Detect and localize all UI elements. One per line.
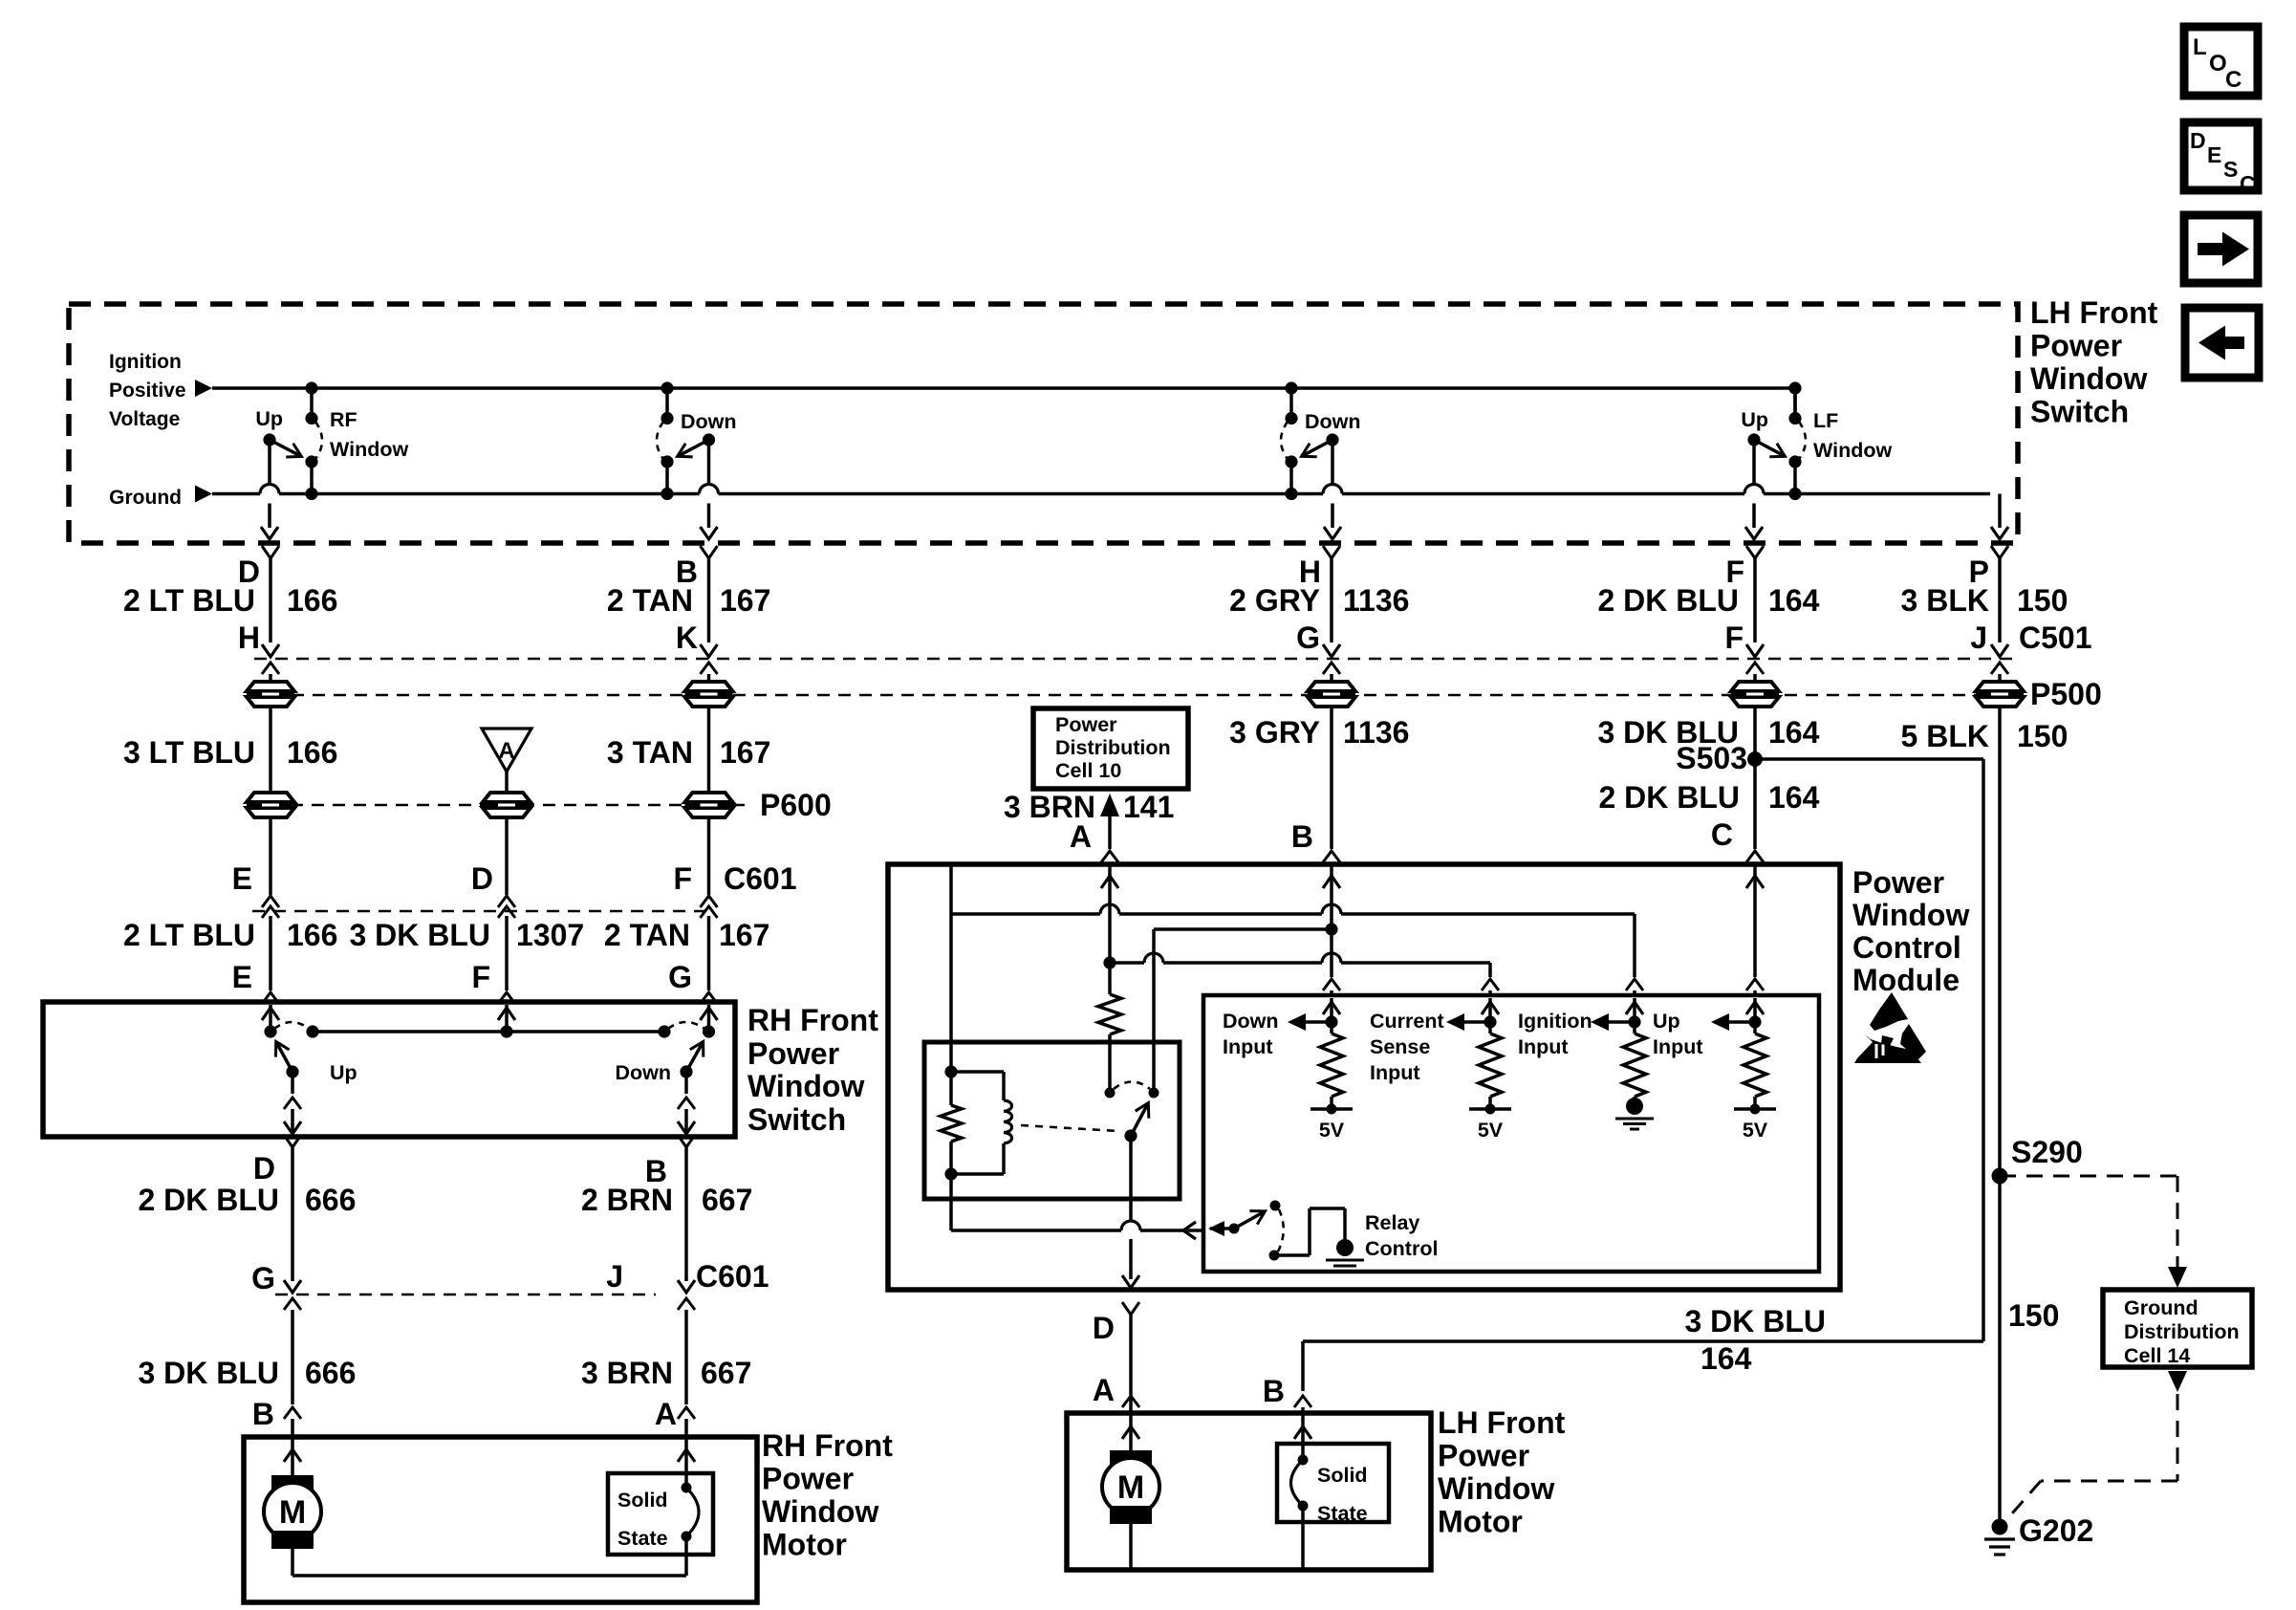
svg-text:Control: Control: [1852, 930, 1961, 965]
connector P600 (dashed line): [249, 804, 753, 806]
wire 3 DK BLU 1307 (P600 to C601): [505, 817, 509, 895]
svg-text:167: 167: [720, 583, 770, 618]
svg-text:150: 150: [2017, 719, 2068, 753]
entry chevron module pin C: [1746, 851, 1764, 862]
svg-text:Up: Up: [1653, 1010, 1680, 1033]
svg-text:Module: Module: [1852, 963, 1960, 997]
label RH Front Power Window Switch: [747, 1003, 878, 1137]
solid state switch contacts (LH motor): [1291, 1413, 1312, 1568]
wire pin D module to LH motor A: [1122, 1302, 1139, 1413]
svg-text:F: F: [673, 861, 692, 896]
solid state switch box (RH motor): [608, 1473, 713, 1555]
wires LH switch to C501 with entry chevrons: [262, 546, 2008, 642]
connector pass-through P500 at x=741.5: [685, 682, 733, 691]
svg-text:5V: 5V: [1478, 1119, 1504, 1142]
svg-text:Distribution: Distribution: [1055, 736, 1171, 759]
svg-text:D: D: [2190, 128, 2206, 153]
wire A triangle to P600: [505, 772, 509, 793]
wire label 2 DK BLU 164: [1597, 583, 1819, 618]
wire label 5 BLK 150: [1901, 719, 2069, 753]
svg-text:167: 167: [720, 735, 770, 770]
svg-text:LH Front: LH Front: [2030, 295, 2158, 330]
svg-text:A: A: [655, 1397, 677, 1431]
svg-text:166: 166: [287, 583, 337, 618]
wire label 2 DK BLU 164 (S503 to module C): [1598, 780, 1819, 815]
label LH Front Power Window Switch: [2030, 295, 2158, 429]
wire B exit RH switch: [678, 1135, 695, 1281]
wire label 3 DK BLU 164: [1597, 715, 1819, 750]
ground input arrow: [195, 486, 212, 503]
svg-text:Window: Window: [330, 438, 408, 461]
RH switch internal bus and contacts: [262, 1005, 718, 1038]
svg-text:LH Front: LH Front: [1438, 1405, 1566, 1440]
svg-text:J: J: [606, 1259, 623, 1294]
svg-text:1307: 1307: [516, 918, 584, 952]
svg-text:Ground: Ground: [2124, 1296, 2199, 1319]
entry chevrons RH switch: [262, 992, 718, 1004]
svg-text:O: O: [2209, 51, 2227, 76]
LH Front Power Window Switch box (dashed): [69, 304, 2018, 543]
svg-text:A: A: [1070, 819, 1092, 854]
connector pass-through P600 col1: [247, 793, 294, 802]
wire 3 DK BLU 164 (S503 to LH motor B): [1294, 1341, 1983, 1413]
ground G202: [1984, 1519, 2015, 1556]
svg-text:3 DK BLU: 3 DK BLU: [349, 918, 490, 952]
svg-text:164: 164: [1768, 715, 1820, 750]
relay coil inductor branch: [951, 1072, 1012, 1174]
svg-text:Power: Power: [1852, 865, 1944, 900]
svg-text:666: 666: [305, 1356, 356, 1390]
svg-text:LF: LF: [1813, 409, 1838, 432]
svg-text:Window: Window: [1438, 1471, 1554, 1506]
svg-text:J: J: [1970, 620, 1987, 655]
switch RF window Up (in LH switch): [261, 381, 322, 539]
svg-text:Window: Window: [2030, 361, 2147, 396]
label RH Front Power Window Motor: [762, 1428, 893, 1562]
svg-text:667: 667: [701, 1356, 751, 1390]
resistor on A line (module internal): [1098, 963, 1121, 1042]
svg-text:G: G: [251, 1261, 275, 1295]
Ground Distribution Cell 14 box: [2103, 1290, 2252, 1367]
svg-text:Power: Power: [747, 1036, 839, 1071]
dashed link S290 to Ground Distribution: [2000, 1176, 2187, 1288]
svg-text:2 LT BLU: 2 LT BLU: [123, 918, 255, 952]
svg-text:5V: 5V: [1319, 1119, 1345, 1142]
wire label 3 DK BLU 666: [138, 1356, 356, 1390]
switch RF window Down (in LH switch): [657, 381, 718, 539]
svg-text:Voltage: Voltage: [109, 408, 180, 430]
connector P500 (dashed line): [271, 694, 1996, 696]
svg-text:Down: Down: [1305, 410, 1361, 433]
wire pin A to current sense (module internal): [1101, 866, 1499, 995]
relay switch (module internal): [1021, 1042, 1159, 1142]
label Down Input: [1223, 1010, 1279, 1058]
connector pass-through P500 at x=283: [247, 682, 294, 691]
wire label 2 LT BLU 166: [123, 583, 337, 618]
svg-text:E: E: [232, 960, 252, 994]
svg-text:C601: C601: [724, 861, 797, 896]
relay box (module internal): [924, 1042, 1180, 1199]
LH Front Power Window Motor box: [1067, 1413, 1431, 1570]
svg-text:164: 164: [1768, 780, 1820, 815]
label LH Front Power Window Motor: [1438, 1405, 1566, 1539]
svg-text:G: G: [668, 960, 692, 994]
svg-text:Input: Input: [1653, 1035, 1703, 1058]
connector pass-through P600 col2: [685, 793, 733, 802]
svg-text:S290: S290: [2011, 1135, 2083, 1169]
svg-text:Switch: Switch: [2030, 395, 2129, 429]
relay control switch with ground: [1208, 1201, 1364, 1273]
wire 3 LT BLU (P600 to C601): [269, 817, 272, 895]
svg-text:Cell 14: Cell 14: [2124, 1344, 2190, 1367]
svg-text:Solid: Solid: [617, 1489, 668, 1512]
motor M (RH front power window motor): [264, 1437, 686, 1576]
wire 3 LT BLU (P500 to P600): [269, 707, 272, 793]
svg-text:Positive: Positive: [109, 380, 186, 402]
label Ignition Positive Voltage: [109, 351, 186, 430]
svg-text:Control: Control: [1365, 1237, 1438, 1260]
label 3 BRN 141: [1004, 790, 1174, 824]
svg-text:Down: Down: [1223, 1010, 1279, 1033]
relay coil resistor branch: [941, 1042, 962, 1181]
svg-text:P600: P600: [760, 788, 832, 822]
Power Window Control Module box: [888, 864, 1840, 1290]
wire ground bus drop to P exit: [1998, 494, 2002, 529]
svg-text:164: 164: [1700, 1341, 1752, 1376]
wire label 2 TAN 167: [607, 583, 770, 618]
svg-text:State: State: [617, 1527, 668, 1550]
svg-text:B: B: [1291, 819, 1313, 854]
svg-text:2 BRN: 2 BRN: [581, 1183, 673, 1217]
connector pass-through P600 colA: [483, 793, 531, 802]
RH switch Down pole and arm: [678, 1041, 704, 1134]
svg-text:Ignition: Ignition: [1518, 1010, 1592, 1033]
RH Front Power Window Motor box: [244, 1437, 757, 1602]
svg-text:150: 150: [2017, 583, 2068, 618]
svg-text:Window: Window: [762, 1494, 878, 1529]
module inner box: [1203, 995, 1819, 1272]
up input resistor (to 5V): [1711, 998, 1776, 1142]
svg-text:Down: Down: [681, 410, 737, 433]
svg-text:Up: Up: [330, 1061, 357, 1084]
wire label 3 DK BLU 1307: [349, 918, 584, 952]
svg-text:Sense: Sense: [1370, 1035, 1430, 1058]
svg-text:2 DK BLU: 2 DK BLU: [1597, 583, 1739, 618]
connector C501 (dashed line): [254, 658, 2015, 660]
svg-text:P500: P500: [2030, 677, 2102, 711]
svg-text:Ground: Ground: [109, 487, 182, 509]
dashed link Ground Distribution to G202: [2005, 1371, 2187, 1521]
RH Front Power Window Switch box: [43, 1002, 735, 1137]
svg-text:666: 666: [305, 1183, 356, 1217]
legend box arrow-left: [2185, 308, 2259, 378]
svg-text:S503: S503: [1676, 741, 1747, 775]
wire 5 BLK (P500 down right side): [1998, 707, 2002, 1176]
ESD sensitivity symbol: [1854, 992, 1926, 1063]
svg-text:G: G: [1296, 620, 1320, 655]
svg-text:K: K: [676, 620, 698, 655]
svg-text:3 TAN: 3 TAN: [607, 735, 693, 770]
switch LF window Down (in LH switch): [1281, 381, 1341, 539]
label RF Window: [330, 408, 408, 461]
svg-text:Input: Input: [1518, 1035, 1569, 1058]
svg-text:Cell 10: Cell 10: [1055, 759, 1121, 782]
wire pin B to down input and relay contact: [1154, 866, 1340, 1042]
svg-text:3 DK BLU: 3 DK BLU: [1684, 1304, 1826, 1338]
svg-text:Power: Power: [2030, 329, 2122, 363]
svg-text:Input: Input: [1223, 1035, 1273, 1058]
label LF Window: [1813, 409, 1892, 462]
svg-text:Motor: Motor: [1438, 1505, 1523, 1539]
svg-text:5 BLK: 5 BLK: [1901, 719, 1989, 753]
wires crossing C601 lower: [284, 1280, 695, 1404]
current sense input resistor (to 5V): [1446, 998, 1511, 1142]
svg-text:166: 166: [287, 918, 337, 952]
svg-text:D: D: [253, 1151, 275, 1186]
splice S503 (junction dot): [1747, 751, 1763, 767]
svg-text:Solid: Solid: [1317, 1464, 1368, 1487]
svg-text:A: A: [498, 738, 514, 764]
svg-text:1136: 1136: [1343, 583, 1409, 618]
svg-text:F: F: [1724, 620, 1744, 655]
wires crossing C601 upper (double chevrons): [262, 896, 718, 990]
svg-text:166: 166: [287, 735, 337, 770]
down input resistor (to 5V): [1288, 998, 1353, 1142]
connector C601 upper (dashed line): [252, 910, 712, 912]
svg-text:C: C: [1711, 817, 1733, 852]
wire label 2 GRY 1136: [1229, 583, 1409, 618]
svg-text:141: 141: [1123, 790, 1174, 824]
svg-text:Up: Up: [1741, 408, 1768, 431]
wire ground bus with hops: [212, 485, 1990, 494]
wire ignition bus drop to LF contact: [1793, 388, 1797, 418]
svg-text:D: D: [471, 861, 493, 896]
svg-text:Power: Power: [762, 1462, 854, 1496]
svg-text:5V: 5V: [1743, 1119, 1768, 1142]
wire 3 TAN (P500 to P600): [707, 707, 711, 793]
svg-text:164: 164: [1768, 583, 1820, 618]
svg-text:Down: Down: [615, 1061, 671, 1084]
svg-text:RH Front: RH Front: [747, 1003, 878, 1037]
svg-text:E: E: [232, 861, 252, 896]
wire 3 DK BLU (P500 to S503): [1753, 707, 1757, 849]
entry chevrons RH motor: [284, 1407, 695, 1437]
wire label 2 BRN 667: [581, 1183, 752, 1217]
label Ignition Input: [1518, 1010, 1592, 1058]
svg-text:Distribution: Distribution: [2124, 1320, 2240, 1343]
wire relay pole to pin D: [1122, 1136, 1139, 1288]
wire label 3 BRN 667: [581, 1356, 751, 1390]
solid state switch contacts (RH motor): [678, 1437, 699, 1542]
ignition positive voltage input arrow: [195, 380, 212, 397]
svg-text:167: 167: [719, 918, 769, 952]
svg-text:C: C: [2225, 67, 2242, 93]
svg-text:Current: Current: [1370, 1010, 1444, 1033]
wire label 3 GRY 1136: [1229, 715, 1409, 750]
svg-text:E: E: [2207, 142, 2221, 167]
label Relay Control: [1365, 1211, 1438, 1260]
wire D exit RH switch: [284, 1135, 301, 1281]
label Current Sense Input: [1370, 1010, 1444, 1084]
svg-text:B: B: [252, 1397, 274, 1431]
svg-text:F: F: [471, 960, 490, 994]
connector pass-through P500 at x=1836: [1731, 682, 1779, 691]
wire 3 TAN (P600 to C601): [707, 817, 711, 895]
wire 3 BRN 141 to Power Distribution: [1100, 794, 1119, 849]
svg-text:Switch: Switch: [747, 1102, 846, 1137]
wire ignition feed (module internal): [951, 866, 1643, 1042]
svg-text:Power: Power: [1055, 713, 1117, 736]
motor M (LH front power window motor): [1102, 1413, 1159, 1568]
svg-text:C: C: [2240, 171, 2256, 196]
ignition input resistor (to ground): [1591, 998, 1654, 1129]
svg-text:M: M: [279, 1494, 306, 1531]
wire relay control to coil: [951, 1174, 1203, 1230]
svg-text:C501: C501: [2019, 620, 2092, 655]
svg-text:150: 150: [2008, 1298, 2059, 1333]
entry chevron module pin A: [1101, 851, 1118, 862]
wire 3 GRY (P500 to module B): [1330, 707, 1333, 849]
splice S290 (junction dot): [1992, 1168, 2008, 1185]
connector C601 lower (dashed line): [275, 1294, 656, 1295]
svg-text:1136: 1136: [1343, 715, 1409, 750]
svg-text:H: H: [238, 620, 260, 655]
svg-text:3 GRY: 3 GRY: [1229, 715, 1320, 750]
svg-text:3 BLK: 3 BLK: [1901, 583, 1989, 618]
svg-text:A: A: [1093, 1373, 1115, 1407]
wire label 3 TAN 167: [607, 735, 770, 770]
wire label 2 TAN 167 (to RH switch): [604, 918, 769, 952]
svg-text:2 LT BLU: 2 LT BLU: [123, 583, 255, 618]
RH switch Up pole and arm: [275, 1042, 301, 1134]
legend box LOC: [2184, 27, 2258, 96]
wire label 3 BLK 150: [1901, 583, 2069, 618]
svg-text:L: L: [2193, 34, 2207, 60]
svg-text:D: D: [1093, 1311, 1115, 1345]
legend box DESC: [2184, 122, 2258, 196]
connector pass-through P500 at x=1393: [1308, 682, 1355, 691]
label Power Window Control Module: [1852, 865, 1969, 997]
svg-text:Power: Power: [1438, 1439, 1529, 1473]
svg-text:2 TAN: 2 TAN: [604, 918, 690, 952]
wires crossing C501 (arrows and chevrons): [262, 644, 2008, 682]
Power Distribution Cell 10 box: [1033, 708, 1188, 789]
svg-text:2 TAN: 2 TAN: [607, 583, 693, 618]
svg-text:Ignition: Ignition: [109, 351, 182, 373]
svg-text:2 DK BLU: 2 DK BLU: [1598, 780, 1740, 815]
svg-text:3 BRN: 3 BRN: [1004, 790, 1095, 824]
label Up Input: [1653, 1010, 1703, 1058]
connector pass-through P500 at x=2092: [1976, 682, 2024, 691]
svg-text:M: M: [1117, 1469, 1144, 1506]
svg-text:Motor: Motor: [762, 1528, 847, 1562]
svg-text:State: State: [1317, 1502, 1368, 1525]
svg-text:G202: G202: [2019, 1513, 2093, 1548]
entry chevron module pin B: [1323, 851, 1340, 862]
legend box arrow-right: [2184, 215, 2258, 283]
svg-text:Window: Window: [1813, 439, 1892, 462]
svg-text:C601: C601: [696, 1259, 769, 1294]
svg-text:Up: Up: [255, 407, 283, 430]
wire 150 S290 to G202: [1998, 1176, 2002, 1527]
wire label 2 LT BLU 166 (to RH switch): [123, 918, 337, 952]
wire label 2 DK BLU 666: [138, 1183, 356, 1217]
svg-text:3 LT BLU: 3 LT BLU: [123, 735, 255, 770]
wire S503 branch right and down: [1755, 759, 1983, 1341]
svg-text:B: B: [1263, 1374, 1285, 1408]
svg-text:RF: RF: [330, 408, 357, 431]
svg-text:Window: Window: [1852, 898, 1969, 932]
wire label 3 LT BLU 166: [123, 735, 337, 770]
svg-text:S: S: [2223, 157, 2238, 182]
wire pin C to up input: [1746, 866, 1764, 995]
svg-text:2 DK BLU: 2 DK BLU: [138, 1183, 279, 1217]
svg-text:3 BRN: 3 BRN: [581, 1356, 673, 1390]
exit chevron relay control: [1183, 1222, 1196, 1239]
wire P exit arrow: [1991, 527, 2008, 539]
svg-text:Input: Input: [1370, 1061, 1420, 1084]
switch LF window Up (in LH switch): [1745, 381, 1806, 539]
svg-text:2 GRY: 2 GRY: [1229, 583, 1320, 618]
svg-text:RH Front: RH Front: [762, 1428, 893, 1463]
svg-text:667: 667: [702, 1183, 752, 1217]
svg-text:Relay: Relay: [1365, 1211, 1419, 1234]
svg-text:Window: Window: [747, 1069, 864, 1103]
wire ignition bus: [212, 386, 1795, 390]
svg-text:3 DK BLU: 3 DK BLU: [138, 1356, 279, 1390]
off-page connector triangle A: [482, 729, 531, 772]
solid state switch box (LH motor): [1277, 1444, 1389, 1525]
